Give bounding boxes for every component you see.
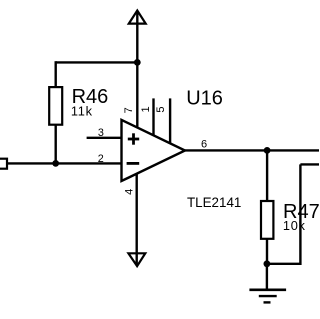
wire: node C down to R47 [266,150,268,201]
wire: R46 bottom to node B [55,125,57,164]
node A junction dot (top, x=137) [134,59,141,66]
wire: pin 5 stub [169,98,171,144]
svg-text:4: 4 [124,189,136,195]
wire: node D right to feedback riser [267,263,301,265]
wire: pin 3 stub (non-inverting input) [87,137,122,139]
svg-text:7: 7 [123,107,135,113]
node D junction dot (above ground) [264,260,271,267]
svg-text:TLE2141: TLE2141 [187,195,241,210]
power symbol VEE down arrow [128,253,145,266]
input terminal box (left edge) [0,159,7,169]
svg-text:1: 1 [140,106,152,112]
ground symbol [249,290,286,303]
node B junction dot (x=55.7 on input wire) [52,160,59,167]
wire: input to inverting pin 2 [7,162,122,164]
resistor R46 body [49,87,62,125]
svg-text:11k: 11k [71,104,93,119]
wire: pin 7 (V+) from node A down into op-amp [136,62,138,129]
wire: feedback to right edge [300,163,319,165]
power symbol VCC up arrow [129,11,146,24]
op-amp plus input marker [128,138,139,141]
wire: node A horizontal to R46 branch [56,61,138,63]
resistor R47 body [261,201,273,239]
wire: R47 bottom to node D [266,239,268,264]
svg-text:U16: U16 [186,87,223,109]
wire: pin 4 (V-) down from op-amp [135,171,137,265]
wire: corner down to R46 top [55,61,57,87]
svg-text:3: 3 [98,127,104,139]
wire: output pin 6 to right edge [185,149,319,151]
op-amp minus input marker [127,162,140,165]
svg-text:5: 5 [155,107,167,113]
op-amp U16 triangle body [122,120,186,181]
wire: node D to ground [266,264,268,290]
svg-text:6: 6 [201,138,207,150]
svg-text:2: 2 [98,153,104,165]
wire: feedback riser up [299,164,301,265]
wire: VCC vertical drop to node A [136,12,138,62]
wire: pin 1 stub [152,98,154,136]
svg-text:10k: 10k [283,218,306,233]
node C junction dot (output) [264,147,271,154]
